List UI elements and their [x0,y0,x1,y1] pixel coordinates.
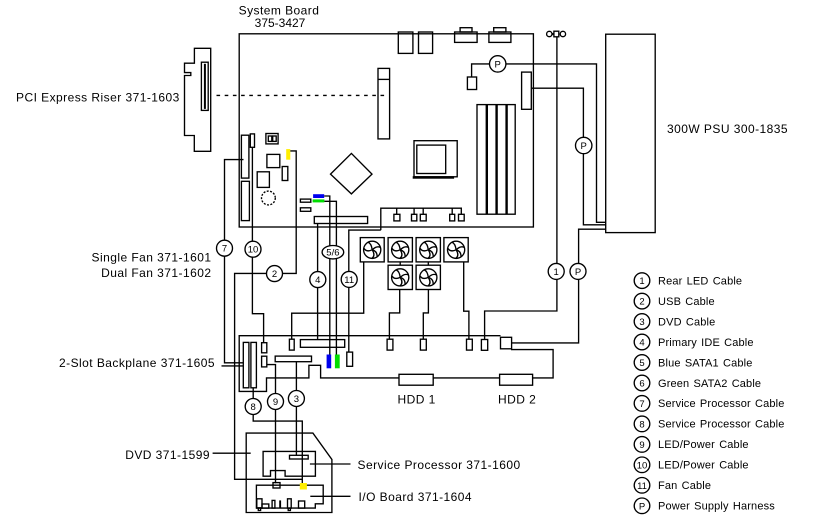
svg-text:9: 9 [639,440,644,451]
PCIe slot on board [378,68,390,138]
cable 1 wire rear LED [485,37,557,340]
legend [634,273,784,514]
IO board connector b [272,500,275,508]
fan header block [381,208,464,230]
svg-text:Single Fan 371-1601: Single Fan 371-1601 [92,251,212,265]
callout circle P right [570,263,586,279]
cable 4 wire [317,224,319,340]
wire P top left [472,64,490,77]
dashed alignment line [217,94,386,96]
callout circle 9 [268,394,284,410]
svg-text:HDD 1: HDD 1 [398,392,436,406]
svg-text:6: 6 [639,379,644,390]
cable 8 wire [253,388,302,483]
svg-text:375-3427: 375-3427 [255,16,306,30]
svg-text:USB Cable: USB Cable [658,296,715,308]
riser slot [201,62,208,110]
backplane label leader [222,365,244,367]
svg-text:Service Processor Cable: Service Processor Cable [658,398,785,410]
svg-text:Fan Cable: Fan Cable [658,480,711,492]
fan stub 3-6 [427,262,429,265]
svg-text:P: P [575,267,581,278]
service processor leader [310,463,351,465]
cable 3 wire [295,362,297,456]
svg-text:2-Slot Backplane 371-1605: 2-Slot Backplane 371-1605 [59,356,215,370]
chip square [267,154,280,167]
DVD label leader [213,452,251,454]
88 connector [266,134,278,144]
callout circle 3 [288,391,304,407]
dashed circle battery [262,191,276,205]
svg-text:4: 4 [639,338,644,349]
riser slot A on board [241,135,249,178]
rear LED symbol [547,31,566,37]
white connector 2 board [300,208,310,212]
legend row 2 [634,293,715,309]
IO board connector d [299,501,305,508]
svg-text:10: 10 [637,460,648,471]
fan F4 [444,238,468,262]
svg-text:HDD 2: HDD 2 [498,392,536,406]
svg-text:PCI Express Riser 371-1603: PCI Express Riser 371-1603 [16,90,180,104]
callout circle 8 [245,399,261,415]
svg-text:LED/Power Cable: LED/Power Cable [658,460,749,472]
svg-text:300W PSU 300-1835: 300W PSU 300-1835 [667,122,788,136]
svg-text:Rear LED Cable: Rear LED Cable [658,275,742,287]
connector LED power top [262,343,267,353]
cable 5 blue SATA wire [324,196,330,355]
fan F5 connector [387,339,393,350]
svg-text:8: 8 [251,402,256,413]
IO white connector top [273,483,280,488]
service processor slot [290,455,309,459]
IO board tab [262,504,269,508]
legend row P [634,498,775,514]
legend row 3 [634,314,715,330]
backplane slot 1 [243,342,249,387]
callout circle P mid [576,137,592,153]
fan F4 wire [464,262,469,339]
wire P bottom PSU to HDD2 power [512,229,606,343]
chassis front outline [239,336,500,392]
fan F6 connector [420,339,426,350]
rear connector 1 [398,32,413,53]
rear connector 4 [489,28,511,43]
svg-text:5/6: 5/6 [326,248,339,259]
svg-text:I/O Board 371-1604: I/O Board 371-1604 [359,490,473,504]
svg-text:1: 1 [554,267,559,278]
IO yellow connector [300,483,307,490]
PCI express riser bracket [185,48,211,151]
svg-text:Service Processor 371-1600: Service Processor 371-1600 [358,458,521,472]
yellow connector board [286,149,290,160]
svg-text:Primary IDE Cable: Primary IDE Cable [658,337,754,349]
svg-text:11: 11 [637,481,647,492]
DVD box [246,433,332,512]
callout circle 7 [217,240,233,256]
svg-text:7: 7 [639,399,644,410]
callout circle 10 [245,241,261,257]
legend row 8 [634,416,784,432]
green SATA connector board [313,199,325,202]
cable 9 wire [267,365,276,484]
callout circle 11 [341,271,357,287]
IDE connector backplane [300,340,344,348]
svg-text:DVD Cable: DVD Cable [658,316,715,328]
callout circle 2 [267,266,283,282]
svg-text:7: 7 [222,244,227,255]
legend row 7 [634,396,784,412]
narrow connector cable10 [250,134,254,147]
svg-text:5: 5 [639,358,644,369]
chipset diamond [331,153,373,194]
svg-text:Green SATA2 Cable: Green SATA2 Cable [658,378,761,390]
cable 6 green SATA wire [324,201,336,354]
svg-text:11: 11 [344,275,354,286]
svg-text:2: 2 [272,269,277,280]
IO board black bar [279,500,281,508]
PSU box [606,34,656,232]
callout circle 1 [548,263,564,279]
fan F1 [360,238,384,262]
fan F6 wire [423,290,428,340]
chip rect [257,172,269,188]
svg-text:P: P [495,59,501,70]
single dual fan labels [92,251,212,281]
fan F4 connector [467,339,473,350]
fan stub 2-5 [399,262,401,265]
chassis right outline [433,350,553,378]
fan F1 wire [292,262,364,339]
legend row 1 [634,273,742,289]
fan F3 [416,238,440,262]
callout oval 5/6 [322,246,344,259]
svg-text:Blue SATA1 Cable: Blue SATA1 Cable [658,357,752,369]
legend row 5 [634,355,752,371]
callout circle 4 [310,272,326,288]
riser slot B on board [241,181,249,220]
cable 2 wire [235,151,303,479]
svg-text:10: 10 [248,245,259,256]
callout circle P top [490,56,506,72]
svg-text:Dual Fan 371-1602: Dual Fan 371-1602 [101,266,211,280]
IO board connector c [288,499,292,511]
service processor box [263,451,315,476]
CPU socket [413,141,458,179]
green SATA backplane connector [335,355,340,369]
fan F6 [416,265,440,289]
svg-text:9: 9 [273,397,278,408]
HDD2 power connector [501,337,512,349]
backplane slot 2 [251,342,257,387]
svg-text:3: 3 [294,394,299,405]
wire P top right to PSU [506,64,606,222]
fan F2 [388,238,412,262]
24-pin power connector [522,72,532,109]
blue SATA connector board [313,194,324,198]
legend row 6 [634,375,761,391]
svg-text:P: P [639,501,645,512]
connector LED power bottom [262,356,267,367]
svg-text:P: P [581,141,587,152]
IO board connector a [257,499,262,511]
fan connector backplane [347,352,353,366]
svg-text:8: 8 [639,419,644,430]
small vertical rect [282,167,288,181]
IO board outline [256,485,323,508]
legend row 11 [634,478,711,494]
svg-text:2: 2 [639,297,644,308]
cable 10 wire [252,147,263,342]
svg-text:4: 4 [315,275,320,286]
HDD2 box [500,374,533,385]
fan F5 wire [389,290,399,340]
system board outline [239,34,533,227]
svg-text:LED/Power Cable: LED/Power Cable [658,439,749,451]
title System Board [239,4,320,31]
connector rear LED front [481,340,487,351]
blue SATA backplane connector [327,355,332,369]
fan F5 [388,265,412,289]
front panel connector [275,356,311,362]
svg-text:1: 1 [639,276,644,287]
legend row 10 [634,457,748,473]
connector small board P [467,77,476,90]
cable 7 wire [225,160,244,363]
svg-text:DVD 371-1599: DVD 371-1599 [125,448,210,462]
fan F1 connector [289,339,294,350]
rear connector 3 [455,28,478,43]
legend row 9 [634,437,748,453]
rear connector 2 [419,32,433,53]
RAM slots [477,105,515,215]
IDE header board [314,217,367,224]
svg-text:Power Supply Harness: Power Supply Harness [658,501,775,513]
IO board leader [310,495,350,497]
HDD labels [398,392,537,406]
HDD1 box [399,374,433,385]
white connector 1 board [300,199,310,202]
wire P mid to PSU [531,88,605,225]
legend row 4 [634,334,753,350]
svg-text:Service Processor Cable: Service Processor Cable [658,419,785,431]
svg-text:3: 3 [639,317,644,328]
cable 11 wire [349,230,381,352]
